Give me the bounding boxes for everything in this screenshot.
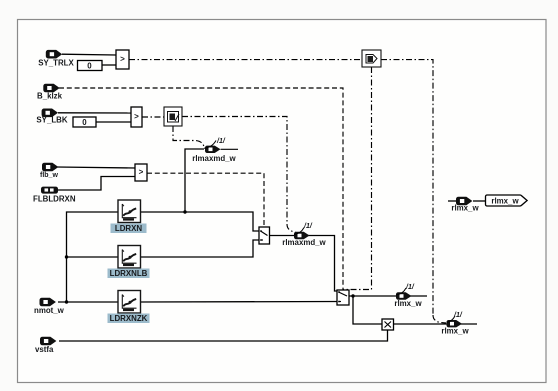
wire switch1 out to switch2 xyxy=(269,236,337,292)
svg-text:rlmaxmd_w: rlmaxmd_w xyxy=(192,154,236,163)
inport flb_w xyxy=(40,163,58,179)
switch2 xyxy=(337,290,349,305)
junction LDRXN branch xyxy=(183,210,186,213)
svg-text:LDRXNZK: LDRXNZK xyxy=(110,314,148,323)
junction nmot branch1 xyxy=(65,300,68,303)
wire FLBLDRXN to R3 xyxy=(58,177,135,191)
signal rlmx_w far right glyph xyxy=(451,197,479,213)
outport rlmx_w pentagon xyxy=(486,195,528,206)
svg-text:B_klzk: B_klzk xyxy=(37,92,63,101)
signal rlmx_w glyph4 xyxy=(441,312,469,336)
svg-text:0: 0 xyxy=(82,118,87,127)
wire block2 bottom dashdot to switch2 control xyxy=(343,67,372,290)
svg-text:0: 0 xyxy=(87,62,92,71)
wire B_klzk dashed xyxy=(59,88,343,290)
wire nmot_w to LDRXNZK xyxy=(58,301,118,303)
svg-text:>: > xyxy=(120,55,125,64)
wire const0_1 to R1 xyxy=(102,64,116,66)
relational operator R2 xyxy=(131,107,142,127)
wire block2 out dashdot right and down xyxy=(381,60,433,315)
junction nmot branch2 xyxy=(65,255,68,258)
svg-text:/1/: /1/ xyxy=(405,284,415,291)
svg-text:LDRXN: LDRXN xyxy=(115,224,142,233)
wire branch to multiply xyxy=(353,296,382,324)
inport nmot_w xyxy=(34,298,65,315)
inport B_klzk xyxy=(37,84,63,101)
svg-text:rlmx_w: rlmx_w xyxy=(491,197,519,206)
relational operator R3 xyxy=(135,164,147,181)
wire block1 bottom dashdot to glyph1 xyxy=(173,126,204,146)
inport SY_TRLX xyxy=(38,50,74,68)
wire const0_2 to R2 xyxy=(96,121,131,123)
inport SY_LBK xyxy=(36,109,67,125)
signal rlmx_w glyph3 xyxy=(394,284,422,308)
constant 0 (SY_LBK) xyxy=(73,117,96,127)
wire R2 out dashdot to block1 xyxy=(142,116,164,118)
wire far right glyph to outport xyxy=(473,200,487,202)
wire block2 elbow to rlmx glyph4 xyxy=(433,315,446,323)
iv block1 (edge latch) xyxy=(164,107,182,126)
wire flb_w to R3 xyxy=(57,167,135,168)
wire SY_TRLX to R1 xyxy=(62,53,116,56)
junction switch2 out xyxy=(351,294,354,297)
wire nmot branch to LDRXNLB xyxy=(67,256,119,258)
svg-text:SY_LBK: SY_LBK xyxy=(36,116,67,125)
svg-text:>: > xyxy=(139,168,144,177)
signal rlmaxmd_w glyph1 xyxy=(192,138,238,163)
svg-text:LDRXNLB: LDRXNLB xyxy=(110,269,148,278)
svg-text:>: > xyxy=(134,112,139,121)
svg-text:SY_TRLX: SY_TRLX xyxy=(38,59,74,68)
wire LDRXN out to switch1 xyxy=(141,212,260,231)
svg-text:/1/: /1/ xyxy=(453,312,463,319)
wire LDRXNZK out to switch2 xyxy=(141,301,338,304)
iv block2 (edge latch) xyxy=(362,50,381,67)
svg-text:rlmx_w: rlmx_w xyxy=(441,327,469,336)
svg-text:rlmaxmd_w: rlmaxmd_w xyxy=(282,238,326,247)
inport FLBLDRXN xyxy=(33,187,76,204)
svg-text:FLBLDRXN: FLBLDRXN xyxy=(33,195,76,204)
wire vstfa to multiply xyxy=(59,330,388,341)
svg-text:flb_w: flb_w xyxy=(40,172,58,179)
wire LDRXNLB out to switch1 xyxy=(141,240,260,257)
svg-text:/1/: /1/ xyxy=(216,138,226,145)
svg-text:/1/: /1/ xyxy=(303,223,313,230)
wire LDRXN branch up to rlmaxmd glyph1 xyxy=(185,149,204,212)
svg-text:rlmx_w: rlmx_w xyxy=(451,204,479,213)
wire nmot vertical branch xyxy=(67,212,119,302)
relational operator R1 xyxy=(116,50,129,69)
wire switch2 out xyxy=(349,295,427,297)
svg-text:nmot_w: nmot_w xyxy=(34,306,65,315)
lookup table LDRXNZK xyxy=(108,291,150,324)
lookup table LDRXNLB xyxy=(108,246,150,279)
wire far right stub xyxy=(448,200,456,202)
wire block1 elbow to glyph2 xyxy=(287,224,296,233)
wire block1 out dashdot right and down xyxy=(182,117,287,225)
lookup table LDRXN xyxy=(111,200,147,233)
inport vstfa xyxy=(35,337,56,354)
signal rlmaxmd_w glyph2 xyxy=(282,223,326,247)
svg-text:vstfa: vstfa xyxy=(35,345,54,354)
wire R3 out dashed to switch1 control xyxy=(147,173,264,227)
switch1 xyxy=(259,227,270,244)
svg-text:rlmx_w: rlmx_w xyxy=(394,299,422,308)
wire multiply out xyxy=(394,323,478,325)
constant 0 (SY_TRLX) xyxy=(78,61,103,71)
multiply block xyxy=(382,319,394,330)
wire SY_LBK to R2 xyxy=(58,112,131,114)
wire R1 out dashdot to block2 xyxy=(129,59,362,61)
